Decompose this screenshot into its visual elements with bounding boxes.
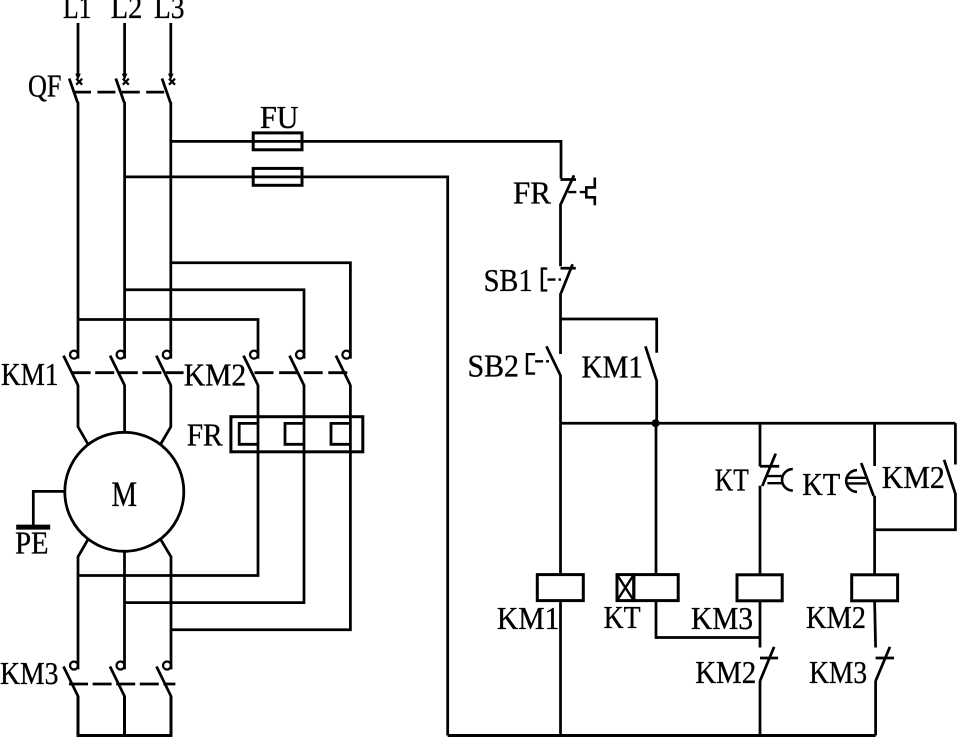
- ground PE: [15, 491, 64, 560]
- wire KM1 pole3 to motor: [160, 385, 170, 445]
- svg-text:KM3: KM3: [809, 654, 867, 690]
- wire fuse2 feed: [125, 176, 302, 179]
- wire KM2 NC to bottom rail: [759, 681, 762, 736]
- wire motor out2 to KM3: [123, 551, 126, 669]
- wire L2 drop with arrow: [122, 23, 128, 80]
- wire KM1 pole1 to motor: [78, 385, 88, 445]
- svg-text:PE: PE: [15, 525, 49, 561]
- wire motor out1 to KM3: [78, 539, 88, 669]
- wire KM3 coil to KM2 NC: [759, 601, 762, 648]
- wire branch to KM1 aux: [561, 319, 657, 353]
- contact KT delayed NO: [802, 423, 874, 502]
- wire KM3 star point bar: [77, 696, 173, 736]
- overload relay FR heaters: [187, 417, 363, 453]
- wire phase3 QF to KM1: [169, 102, 172, 359]
- wire KM2 pole1 through FR to motor line1: [78, 385, 258, 576]
- wire fuse2 to bottom rail: [302, 177, 448, 736]
- wire fuse1 feed: [171, 140, 302, 143]
- node junction dot: [652, 419, 660, 427]
- contact KM1 auxiliary self-hold: [582, 346, 657, 384]
- wire fuse1 to control: [302, 141, 561, 178]
- node L2: [111, 0, 143, 25]
- svg-text:KT: KT: [715, 462, 749, 498]
- svg-text:KT: KT: [802, 466, 840, 502]
- wire KM1 coil to bottom rail: [559, 601, 562, 736]
- wire drop to KT coil: [655, 423, 658, 574]
- svg-text:KM2: KM2: [806, 599, 866, 635]
- node L3: [154, 0, 185, 25]
- svg-text:L1: L1: [63, 0, 92, 25]
- coil KT time relay: [604, 575, 679, 635]
- node L1: [63, 0, 92, 25]
- wire L1 drop with arrow: [75, 23, 81, 80]
- contact KT delayed NC: [715, 423, 793, 497]
- wire phase1 QF to KM1: [77, 102, 80, 359]
- wire branch to KM2 pole3: [171, 263, 351, 359]
- contact KM2 interlock NC: [695, 647, 778, 690]
- contact FR normally-closed: [513, 175, 595, 211]
- wire KM1 pole2 to motor: [123, 385, 126, 433]
- coil KM1: [497, 575, 583, 636]
- svg-text:KT: KT: [604, 599, 641, 635]
- svg-text:KM1: KM1: [582, 349, 644, 385]
- svg-text:KM2: KM2: [695, 654, 756, 690]
- svg-text:L2: L2: [111, 0, 143, 25]
- fuse FU1: [253, 99, 302, 150]
- contactor KM3 main contacts: [0, 655, 175, 696]
- wire KT NO to KM2 coil: [873, 496, 876, 575]
- contact KM2 auxiliary: [882, 423, 956, 495]
- svg-text:KM1: KM1: [1, 356, 59, 392]
- wire KT NC to KM3 coil: [759, 486, 762, 575]
- breaker QF: [28, 67, 175, 103]
- wire KM3 NC to bottom rail: [874, 681, 877, 736]
- svg-text:KM3: KM3: [691, 600, 753, 636]
- wire drop to KM1 coil: [559, 423, 562, 574]
- wire branch to KM2 pole1: [78, 320, 258, 359]
- wire KT coil bottom to KM3 branch: [656, 601, 760, 638]
- wire KM2 aux loop to coil branch: [875, 494, 956, 530]
- motor M: [65, 432, 184, 551]
- svg-text:KM3: KM3: [0, 655, 59, 691]
- pushbutton SB2 start: [468, 346, 561, 383]
- wire bottom control rail: [448, 734, 876, 737]
- coil KM3: [691, 575, 782, 636]
- svg-text:FR: FR: [187, 417, 224, 453]
- svg-text:SB1: SB1: [484, 262, 533, 298]
- svg-text:L3: L3: [154, 0, 185, 25]
- wire FR to SB1: [559, 204, 562, 267]
- svg-text:KM2: KM2: [882, 459, 945, 495]
- wire KM1 aux to junction row: [655, 381, 658, 423]
- wire KM2 pole3 through FR to motor line3: [171, 385, 350, 630]
- coil KM2: [806, 575, 898, 635]
- contactor KM1 main contacts: [1, 351, 184, 392]
- svg-text:M: M: [112, 474, 138, 514]
- wire SB1 to SB2: [559, 293, 562, 354]
- svg-text:FU: FU: [260, 99, 299, 135]
- wire KM2 pole2 through FR to motor line2: [125, 385, 305, 603]
- pushbutton SB1 stop: [484, 262, 576, 298]
- svg-text:QF: QF: [28, 67, 62, 103]
- svg-text:KM1: KM1: [497, 600, 560, 636]
- wire L3 drop with arrow: [168, 23, 174, 80]
- wire SB2 to junction row: [559, 375, 562, 423]
- wire phase2 QF to KM1: [123, 102, 126, 359]
- wire branch to KM2 pole2: [125, 290, 304, 359]
- fuse FU2: [253, 168, 302, 185]
- svg-text:KM2: KM2: [184, 357, 247, 393]
- wire motor out3 to KM3: [160, 539, 171, 669]
- contactor KM2 main contacts: [184, 351, 351, 393]
- wire junction bus row: [561, 422, 956, 425]
- contact KM3 interlock NC: [809, 647, 894, 690]
- svg-text:FR: FR: [513, 175, 552, 211]
- wire KM2 coil to KM3 NC: [875, 601, 876, 648]
- svg-text:SB2: SB2: [468, 347, 520, 383]
